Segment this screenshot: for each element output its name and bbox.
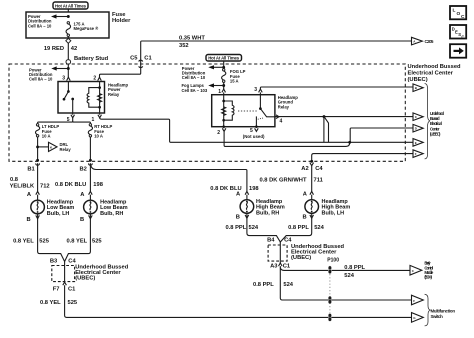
svg-text:Cell 8A – 10: Cell 8A – 10 xyxy=(29,77,53,82)
svg-text:F7: F7 xyxy=(53,286,60,292)
svg-text:A: A xyxy=(236,191,240,197)
svg-text:Bulb, RH: Bulb, RH xyxy=(256,210,279,216)
svg-text:YEL/BLK: YEL/BLK xyxy=(10,183,35,189)
svg-text:Cell 8A – 10: Cell 8A – 10 xyxy=(28,23,52,28)
svg-text:10 A: 10 A xyxy=(42,134,51,139)
svg-text:10 A: 10 A xyxy=(94,134,103,139)
svg-text:352: 352 xyxy=(179,43,189,49)
svg-text:B: B xyxy=(80,217,84,223)
svg-text:A: A xyxy=(80,192,84,198)
svg-text:198: 198 xyxy=(249,186,259,192)
svg-text:Bulb, LH: Bulb, LH xyxy=(322,210,345,216)
svg-text:525: 525 xyxy=(92,239,102,245)
svg-text:0.8 YEL: 0.8 YEL xyxy=(40,300,61,306)
svg-text:A2: A2 xyxy=(301,166,308,172)
svg-text:Battery Stud: Battery Stud xyxy=(74,56,109,62)
svg-text:C1: C1 xyxy=(144,56,152,62)
svg-text:524: 524 xyxy=(283,282,293,288)
svg-text:Underhood Bussed: Underhood Bussed xyxy=(408,64,462,70)
svg-text:(UBEC): (UBEC) xyxy=(408,77,428,83)
svg-text:Bulb, LH: Bulb, LH xyxy=(47,211,70,217)
svg-text:C: C xyxy=(461,35,464,40)
svg-text:Relay: Relay xyxy=(108,92,120,97)
svg-text:524: 524 xyxy=(314,225,324,231)
svg-text:1: 1 xyxy=(218,89,221,95)
svg-text:C5: C5 xyxy=(130,56,138,62)
svg-text:Hot At All Times: Hot At All Times xyxy=(208,56,240,61)
svg-text:O: O xyxy=(457,11,461,17)
svg-text:42: 42 xyxy=(71,46,77,52)
svg-text:A3: A3 xyxy=(270,264,277,270)
svg-text:F: F xyxy=(415,152,417,156)
svg-text:2: 2 xyxy=(217,130,220,136)
svg-text:(UBEC): (UBEC) xyxy=(75,275,95,281)
svg-text:E: E xyxy=(415,141,417,145)
svg-text:B: B xyxy=(236,215,240,221)
svg-text:3: 3 xyxy=(62,75,65,81)
svg-text:524: 524 xyxy=(249,225,259,231)
svg-text:(UBEC): (UBEC) xyxy=(430,131,441,136)
svg-text:0.8 DK GRN/WHT: 0.8 DK GRN/WHT xyxy=(260,177,307,183)
svg-text:0.8 DK BLU: 0.8 DK BLU xyxy=(55,182,86,188)
svg-text:0.8 YEL: 0.8 YEL xyxy=(67,239,88,245)
svg-text:(UBEC): (UBEC) xyxy=(291,255,311,261)
svg-text:Cell 8A – 103: Cell 8A – 103 xyxy=(182,88,208,93)
svg-text:B2: B2 xyxy=(80,167,87,173)
svg-text:B1: B1 xyxy=(27,167,35,173)
svg-text:0.8 PPL: 0.8 PPL xyxy=(344,265,365,271)
svg-text:B4: B4 xyxy=(267,238,275,244)
svg-text:4: 4 xyxy=(280,119,283,125)
svg-text:C1: C1 xyxy=(283,264,291,270)
svg-text:A: A xyxy=(303,191,307,197)
svg-text:MegaFuse ®: MegaFuse ® xyxy=(74,26,100,31)
svg-text:C4: C4 xyxy=(315,166,323,172)
svg-text:Electrical Center: Electrical Center xyxy=(408,71,454,77)
svg-text:B3: B3 xyxy=(50,258,57,264)
svg-text:0.8: 0.8 xyxy=(10,177,19,183)
svg-text:Hot At All Times: Hot At All Times xyxy=(55,3,87,8)
svg-text:Switch: Switch xyxy=(431,314,444,319)
svg-text:Relay: Relay xyxy=(60,147,72,152)
svg-text:711: 711 xyxy=(314,177,324,183)
svg-text:0.35 WHT: 0.35 WHT xyxy=(179,36,205,42)
svg-text:Cell 8A – 10: Cell 8A – 10 xyxy=(182,75,206,80)
svg-text:C4: C4 xyxy=(284,238,292,244)
svg-text:1: 1 xyxy=(92,117,95,123)
svg-text:0.8 PPL: 0.8 PPL xyxy=(288,225,309,231)
svg-text:0.8 YEL: 0.8 YEL xyxy=(13,239,34,245)
svg-text:B: B xyxy=(27,217,31,223)
svg-text:B: B xyxy=(303,215,307,221)
svg-text:(Not used): (Not used) xyxy=(243,134,265,139)
svg-text:3: 3 xyxy=(254,87,257,93)
svg-text:712: 712 xyxy=(40,183,50,189)
svg-text:C205: C205 xyxy=(425,39,435,44)
svg-text:525: 525 xyxy=(39,239,49,245)
svg-text:525: 525 xyxy=(68,300,78,306)
svg-text:198: 198 xyxy=(93,182,103,188)
svg-text:(BCM): (BCM) xyxy=(424,275,432,280)
svg-text:L: L xyxy=(453,8,456,14)
svg-text:0.8 PPL: 0.8 PPL xyxy=(253,282,274,288)
svg-text:Holder: Holder xyxy=(112,18,131,24)
svg-text:F: F xyxy=(413,299,415,303)
svg-text:Relay: Relay xyxy=(278,104,290,109)
svg-text:Bulb, RH: Bulb, RH xyxy=(100,211,123,217)
svg-text:0.8 PPL: 0.8 PPL xyxy=(226,225,247,231)
svg-text:C: C xyxy=(461,14,465,20)
svg-text:2: 2 xyxy=(93,75,96,81)
svg-text:15 A: 15 A xyxy=(230,78,239,83)
svg-text:A: A xyxy=(27,192,31,198)
svg-text:C1: C1 xyxy=(68,286,76,292)
svg-text:P100: P100 xyxy=(327,257,339,263)
svg-text:524: 524 xyxy=(344,273,354,279)
svg-text:C4: C4 xyxy=(68,258,76,264)
svg-text:19 RED: 19 RED xyxy=(44,46,64,52)
